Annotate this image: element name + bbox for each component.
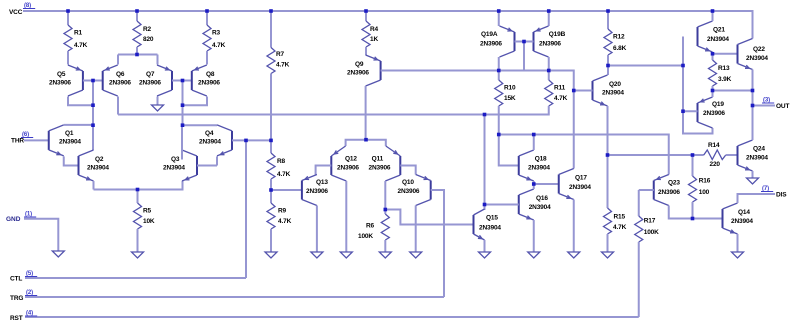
wire R12 top <box>607 11 609 29</box>
node output drive junction <box>606 153 610 157</box>
label: transistor Q19 2N3906 (PNP) <box>703 101 725 117</box>
transistor Q5 2N3906 (PNP) <box>68 65 83 96</box>
wire TRG row <box>25 296 444 298</box>
svg-text:4.7K: 4.7K <box>277 171 291 178</box>
svg-text:R4: R4 <box>370 26 379 33</box>
node rail-R1 junction <box>66 9 70 13</box>
label: resistor R8 <box>277 158 291 178</box>
node rail-R3 junction <box>205 9 209 13</box>
wire Q17 emitter to ground <box>573 200 575 253</box>
wire Q14 collector to DIS <box>738 194 776 203</box>
wire R8 to R9 <box>270 179 272 203</box>
node CTL branch junction <box>244 139 248 143</box>
label: pin RST <box>10 311 37 323</box>
svg-text:Q22: Q22 <box>753 46 765 53</box>
svg-text:Q11: Q11 <box>372 156 384 163</box>
wire R14 to Q24 base <box>726 154 738 156</box>
svg-text:R14: R14 <box>708 142 720 149</box>
svg-text:Q19: Q19 <box>712 101 724 108</box>
wire Q9 collector down <box>365 86 367 140</box>
ground at GND pin <box>52 251 64 257</box>
node Q21-R13-Q22 junction <box>711 52 715 56</box>
node comparator emitter junction <box>364 138 368 142</box>
resistor R14 <box>704 150 726 160</box>
svg-text:2N3906: 2N3906 <box>703 110 725 117</box>
label: resistor R1 <box>74 30 88 50</box>
svg-text:Q15: Q15 <box>486 215 498 222</box>
svg-text:2N3904: 2N3904 <box>707 36 729 43</box>
wire Q21 collector up <box>712 11 714 21</box>
node Q8 collector junction <box>181 103 185 107</box>
node rail-R2 junction <box>135 9 139 13</box>
ground at R5 <box>132 252 144 258</box>
wire Q7 collector to ground <box>157 97 159 106</box>
label: resistor R5 <box>143 208 155 226</box>
wire Q3-Q4 collector row <box>183 124 218 126</box>
node Q19B collector / R11 junction <box>547 69 551 73</box>
svg-text:2N3906: 2N3906 <box>539 41 561 48</box>
wire CTL row <box>25 140 246 278</box>
label: resistor R13 <box>718 65 732 83</box>
node Q21 base column junction <box>681 64 685 68</box>
wire Q24 emitter to ground <box>752 171 754 178</box>
transistor Q14 2N3904 (NPN) <box>723 203 738 234</box>
svg-text:2N3906: 2N3906 <box>398 188 420 195</box>
node R13-Q19 junction <box>711 89 715 93</box>
wire Q12 collector to ground <box>345 181 347 252</box>
wire Q16 emitter to ground <box>533 220 535 252</box>
svg-text:4.7K: 4.7K <box>276 62 290 69</box>
node R10 row junction <box>497 133 501 137</box>
svg-text:2N3904: 2N3904 <box>529 204 551 211</box>
svg-text:2N3906: 2N3906 <box>337 165 359 172</box>
resistor R6 <box>381 210 389 241</box>
label: transistor Q21 2N3904 (NPN) <box>707 27 729 43</box>
wire Q1 emitter to Q2 base <box>64 156 79 165</box>
svg-text:2N3904: 2N3904 <box>87 165 109 172</box>
svg-text:Q18: Q18 <box>535 156 547 163</box>
wire divider to Q13 base <box>271 189 302 191</box>
wire junction row to Q21 base column <box>608 65 683 67</box>
resistor R3 <box>203 25 211 51</box>
svg-text:R11: R11 <box>554 85 566 92</box>
node Q16 base junction <box>483 203 487 207</box>
wire R7 top <box>270 11 272 48</box>
node Q22 emitter junction <box>751 89 755 93</box>
svg-text:R7: R7 <box>276 51 285 58</box>
svg-text:4.7K: 4.7K <box>278 218 292 225</box>
node Q5 collector junction <box>91 103 95 107</box>
transistor Q21 2N3904 (NPN) <box>698 21 713 52</box>
wire common emitter row <box>94 181 183 190</box>
svg-text:Q19A: Q19A <box>481 31 498 38</box>
svg-text:15K: 15K <box>504 95 516 102</box>
wire Q16 collector up <box>533 184 535 189</box>
ground at Q24 emitter <box>747 178 759 184</box>
resistor R11 <box>545 80 553 106</box>
label: pin DIS <box>761 186 787 199</box>
wire Q20 collector up <box>607 66 609 76</box>
node R16 top junction <box>691 153 695 157</box>
svg-text:R10: R10 <box>504 85 516 92</box>
label: transistor Q13 2N3906 (PNP) <box>306 179 328 195</box>
wire Q12 base to Q13 emitter <box>316 166 332 175</box>
label: transistor Q24 2N3904 (NPN) <box>746 146 768 162</box>
label: transistor Q22 2N3904 (NPN) <box>746 46 768 62</box>
transistor Q12 2N3906 (PNP) <box>331 146 346 181</box>
transistor Q1 2N3904 (NPN) <box>49 125 64 156</box>
ground at Q12 collector <box>340 252 352 258</box>
label: resistor R14 <box>708 142 720 168</box>
node Q3 collector junction <box>181 123 185 127</box>
svg-text:R6: R6 <box>366 223 375 230</box>
transistor Q13 2N3906 (PNP) <box>302 175 317 206</box>
node Q18-Q16-Q17 junction <box>532 182 536 186</box>
label: transistor Q9 2N3906 (PNP) <box>347 61 369 77</box>
svg-text:R2: R2 <box>143 26 152 33</box>
wire Q8 collector <box>183 97 208 106</box>
wire R10 top <box>498 71 500 81</box>
transistor Q22 2N3904 (NPN) <box>738 39 753 70</box>
wire Q5 base row <box>83 80 103 82</box>
node rail-R12 junction <box>606 9 610 13</box>
wire set row <box>499 135 669 175</box>
label: resistor R11 <box>554 85 568 103</box>
svg-text:2N3906: 2N3906 <box>306 188 328 195</box>
svg-text:2N3904: 2N3904 <box>199 139 221 146</box>
svg-text:4.7K: 4.7K <box>74 42 88 49</box>
ground at Q10 collector <box>410 252 422 258</box>
node Q5-Q6 base junction <box>91 79 95 83</box>
label: transistor Q19B 2N3906 (PNP) <box>539 31 566 48</box>
transistor Q9 2N3906 (PNP) <box>366 55 381 86</box>
resistor R15 <box>604 208 612 234</box>
wire Q14 emitter to ground <box>737 234 739 252</box>
svg-text:2N3904: 2N3904 <box>59 139 81 146</box>
wire Q7 base to Q8 base <box>172 80 192 82</box>
wire OUT stub <box>753 105 776 107</box>
node R8-R9 junction <box>269 188 273 192</box>
svg-text:220: 220 <box>710 161 721 168</box>
wire Q10 base to TRG <box>431 190 444 297</box>
node Q1 collector junction <box>91 123 95 127</box>
label: transistor Q10 2N3906 (PNP) <box>398 179 420 195</box>
transistor Q8 2N3906 (PNP) <box>192 65 207 96</box>
label: transistor Q19A 2N3906 (PNP) <box>480 31 502 48</box>
svg-text:2N3906: 2N3906 <box>347 70 369 77</box>
wire Q19B emitter up <box>548 11 550 26</box>
label: resistor R17 <box>644 218 659 237</box>
svg-text:CTL: CTL <box>10 276 22 283</box>
svg-text:4.7K: 4.7K <box>613 224 627 231</box>
resistor R10 <box>495 80 503 106</box>
label: transistor Q5 2N3906 (PNP) <box>49 71 71 87</box>
svg-text:Q16: Q16 <box>536 195 548 202</box>
transistor Q11 2N3906 (PNP) <box>385 146 400 181</box>
svg-text:Q1: Q1 <box>65 130 74 137</box>
svg-text:2N3906: 2N3906 <box>480 41 502 48</box>
svg-text:R13: R13 <box>718 65 730 72</box>
svg-text:R1: R1 <box>74 30 83 37</box>
transistor Q20 2N3904 (NPN) <box>593 75 608 106</box>
svg-text:Q24: Q24 <box>753 146 765 153</box>
node R12-Q20 junction <box>606 64 610 68</box>
node rail-Q19B junction <box>547 9 551 13</box>
label: pin CTL <box>10 271 37 283</box>
wire Q19B collector down <box>548 57 550 71</box>
svg-text:100K: 100K <box>644 229 659 236</box>
wire Q11 base to Q10 emitter <box>400 166 415 175</box>
label: transistor Q17 2N3904 (NPN) <box>569 175 591 192</box>
wire Q6 collector down <box>117 97 119 115</box>
svg-text:R16: R16 <box>699 178 711 185</box>
svg-text:2N3904: 2N3904 <box>163 165 185 172</box>
svg-text:DIS: DIS <box>776 192 787 199</box>
svg-text:2N3904: 2N3904 <box>528 165 550 172</box>
label: pin TRG <box>10 290 37 302</box>
ground at R15 <box>602 252 614 258</box>
transistor Q18 2N3904 (NPN) <box>519 150 534 181</box>
node rail-R4 junction <box>364 9 368 13</box>
svg-text:THR: THR <box>11 138 24 145</box>
resistor R8 <box>267 153 275 179</box>
svg-text:R3: R3 <box>212 30 221 37</box>
transistor Q4 2N3904 (NPN) <box>217 125 232 156</box>
label: transistor Q15 2N3904 (NPN) <box>479 215 501 232</box>
transistor Q19B 2N3906 (PNP) <box>534 26 549 57</box>
node R16-Q23-Q14 junction <box>691 217 695 221</box>
svg-text:2N3904: 2N3904 <box>746 55 768 62</box>
node rail-Q21 junction <box>711 9 715 13</box>
svg-text:Q9: Q9 <box>355 61 364 68</box>
wire Q24 collector up <box>752 106 754 141</box>
svg-text:Q19B: Q19B <box>549 31 566 38</box>
label: transistor Q8 2N3906 (PNP) <box>198 71 220 87</box>
transistor Q23 2N3906 (PNP) <box>654 175 669 206</box>
label: transistor Q20 2N3904 (NPN) <box>602 81 624 97</box>
svg-text:Q2: Q2 <box>95 156 104 163</box>
wire junction to Q17 base <box>534 183 559 185</box>
label: transistor Q3 2N3904 (NPN) <box>163 156 185 172</box>
wire Q23 collector to Q14 base <box>669 206 723 219</box>
label: resistor R2 <box>143 26 154 43</box>
svg-text:R17: R17 <box>644 218 656 225</box>
wire base junction down <box>92 81 94 106</box>
ground at R6 <box>379 252 391 258</box>
wire R1 top <box>67 11 69 25</box>
transistor Q7 2N3906 (PNP) <box>157 65 172 96</box>
transistor Q16 2N3904 (NPN) <box>519 189 534 220</box>
wire Q13 collector to ground <box>316 206 318 253</box>
svg-text:Q23: Q23 <box>668 180 680 187</box>
resistor R5 <box>134 203 142 229</box>
svg-text:4.7K: 4.7K <box>554 95 568 102</box>
wire R5 to ground <box>137 229 139 252</box>
label: pin OUT <box>762 98 789 111</box>
label: transistor Q7 2N3906 (PNP) <box>139 71 161 87</box>
wire emitter feed right to Q11 <box>366 140 386 146</box>
label: pin THR <box>11 132 33 145</box>
wire THR stub <box>24 139 49 141</box>
wire Q3 collector up <box>181 125 183 159</box>
wire R3 to Q8 emitter <box>206 51 208 65</box>
svg-text:Q4: Q4 <box>205 130 214 137</box>
resistor R12 <box>604 29 612 55</box>
svg-text:Q7: Q7 <box>146 71 155 78</box>
wire Q11 collector down <box>384 181 386 210</box>
node rail-Q19A junction <box>497 9 501 13</box>
wire Q20 emitter / R15 column <box>607 106 609 208</box>
wire collector column x93 <box>92 105 94 150</box>
transistor Q3 2N3904 (NPN) <box>182 150 197 181</box>
svg-text:Q17: Q17 <box>575 175 587 182</box>
transistor Q24 2N3904 (NPN) <box>738 140 753 171</box>
svg-text:R9: R9 <box>278 208 287 215</box>
wire R2 top <box>136 11 138 21</box>
wire Q20 base <box>574 90 593 92</box>
wire Q16 base <box>485 204 519 206</box>
label: pin VCC <box>9 3 35 16</box>
svg-text:10K: 10K <box>143 218 155 225</box>
svg-text:2N3906: 2N3906 <box>109 80 131 87</box>
wire R7 to R8 <box>270 74 272 154</box>
label: transistor Q12 2N3906 (PNP) <box>337 156 359 172</box>
wire drive column down <box>484 115 486 211</box>
node Q7-Q8 base junction <box>181 79 185 83</box>
label: transistor Q23 2N3906 (PNP) <box>658 180 680 197</box>
label: resistor R3 <box>212 30 226 50</box>
svg-text:RST: RST <box>10 315 23 322</box>
resistor R1 <box>64 25 72 51</box>
wire R2 bottom to Q6/Q7 emitters <box>118 47 158 65</box>
wire output drive row <box>608 154 704 156</box>
label: transistor Q18 2N3904 (NPN) <box>528 156 550 172</box>
wire Q21 emitter down <box>712 52 714 54</box>
wire R12 to junction <box>607 55 609 66</box>
node Q18 collector junction <box>532 133 536 137</box>
label: resistor R15 <box>613 214 627 232</box>
svg-text:2N3906: 2N3906 <box>139 80 161 87</box>
svg-text:2N3906: 2N3906 <box>49 80 71 87</box>
resistor R16 <box>689 155 697 202</box>
label: transistor Q2 2N3904 (NPN) <box>87 156 109 172</box>
wire R11 top <box>548 71 550 81</box>
svg-text:R8: R8 <box>277 158 286 165</box>
wire R16 bottom <box>692 202 694 219</box>
ground at Q13 collector <box>311 252 323 258</box>
resistor R2 <box>133 21 141 47</box>
label: resistor R9 <box>278 208 292 226</box>
label: resistor R10 <box>504 85 516 103</box>
svg-text:100: 100 <box>699 189 710 196</box>
ground at Q7 collector <box>152 105 164 111</box>
ground at Q16 emitter <box>528 252 540 258</box>
node R7-R8 junction <box>269 139 273 143</box>
label: transistor Q14 2N3904 (NPN) <box>731 209 753 225</box>
wire RST row <box>25 316 639 318</box>
node Q19 base junction <box>681 109 685 113</box>
transistor Q2 2N3904 (NPN) <box>79 150 94 181</box>
svg-text:Q12: Q12 <box>345 156 357 163</box>
wire Q18 emitter down <box>533 181 535 184</box>
node Q15/Q16 drive junction <box>483 113 487 117</box>
label: transistor Q11 2N3906 (PNP) <box>369 156 391 172</box>
wire Q3 base to Q4 emitter <box>197 156 217 165</box>
wire Q19A collector down <box>498 57 500 71</box>
node Q11 collector / R6 junction <box>384 208 388 212</box>
wire Q9 base row to current mirror <box>381 71 574 169</box>
label: resistor R6 <box>358 223 375 241</box>
label: resistor R12 <box>613 34 627 53</box>
wire GND stub <box>24 219 58 251</box>
node R2 emitter junction <box>135 53 139 57</box>
wire Q10 collector to ground <box>415 206 417 253</box>
node OUT junction <box>751 104 755 108</box>
wire Q2 emitter down <box>93 181 95 190</box>
wire R6 to ground <box>384 240 386 252</box>
wire R15 to ground <box>607 234 609 252</box>
node rail-R7 junction <box>269 9 273 13</box>
wire R13 bottom row <box>713 86 753 91</box>
resistor R17 <box>635 216 643 242</box>
svg-text:2N3904: 2N3904 <box>731 218 753 225</box>
wire threshold comparator output row <box>118 106 549 115</box>
wire R9 to ground <box>270 229 272 252</box>
svg-text:R12: R12 <box>613 34 625 41</box>
label: transistor Q16 2N3904 (NPN) <box>529 195 551 211</box>
svg-text:1K: 1K <box>370 36 378 43</box>
wire R5 top <box>137 190 139 204</box>
node Q19A collector / R10 junction <box>497 69 501 73</box>
svg-text:Q20: Q20 <box>609 81 621 88</box>
wire Q19A emitter up <box>498 11 500 26</box>
wire Q23 base / R17 column <box>639 190 654 216</box>
wire emitter feed left to Q12 <box>346 140 366 146</box>
svg-text:OUT: OUT <box>776 103 789 110</box>
wire R10 to comparator node <box>498 106 500 135</box>
wire Q1 collector <box>64 124 93 126</box>
wire Q15 emitter to ground <box>484 240 486 252</box>
transistor Q19A 2N3906 (PNP) <box>500 26 515 57</box>
transistor Q10 2N3906 (PNP) <box>416 175 431 206</box>
wire Q22 base row <box>713 53 738 55</box>
svg-text:2N3904: 2N3904 <box>746 155 768 162</box>
svg-text:2N3906: 2N3906 <box>369 165 391 172</box>
label: resistor R16 <box>699 178 711 197</box>
wire VCC rail (pin 8 net) <box>23 11 753 39</box>
svg-text:Q6: Q6 <box>116 71 125 78</box>
wire base junction down <box>182 81 184 126</box>
svg-text:GND: GND <box>6 216 21 223</box>
label: transistor Q1 2N3904 (NPN) <box>59 130 81 146</box>
wire Q18 base <box>499 135 519 166</box>
wire R3 top <box>206 11 208 25</box>
wire Q19 base <box>683 110 698 112</box>
wire Q18 collector up <box>533 135 535 151</box>
wire R1 to Q5 emitter <box>67 51 69 65</box>
svg-text:R5: R5 <box>143 208 152 215</box>
svg-text:3.9K: 3.9K <box>718 76 732 83</box>
svg-text:TRG: TRG <box>10 295 23 302</box>
svg-text:VCC: VCC <box>9 9 23 16</box>
svg-text:2N3904: 2N3904 <box>479 225 501 232</box>
wire R4 top <box>365 11 367 21</box>
wire Q19A-Q19B base tie <box>515 41 534 43</box>
svg-text:Q8: Q8 <box>206 71 215 78</box>
svg-text:Q5: Q5 <box>57 71 66 78</box>
wire Q22 emitter column <box>752 70 754 141</box>
wire base junction down <box>523 42 525 71</box>
